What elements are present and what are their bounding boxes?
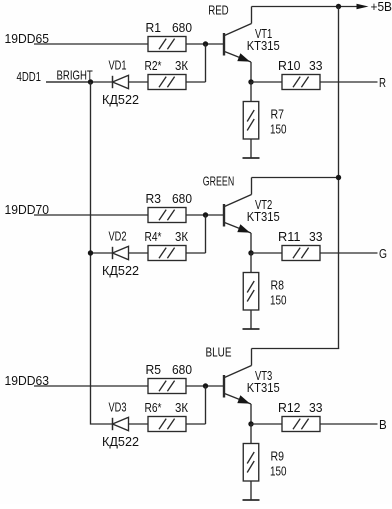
svg-text:VD3: VD3 [109,400,127,415]
resistor R6* 3К [145,400,189,432]
svg-text:КД522: КД522 [102,263,139,278]
svg-text:R4*: R4* [145,229,162,244]
svg-text:150: 150 [270,464,287,479]
wire R10 to output R [321,81,378,83]
svg-text:R6*: R6* [145,400,162,415]
wire 4DD1 BRIGHT input [46,81,91,83]
resistor R1 680 [146,20,193,52]
svg-text:GREEN: GREEN [203,173,234,188]
wire R11 to output G [321,252,378,254]
resistor R7 150 [243,102,286,140]
svg-text:КД522: КД522 [102,92,139,107]
wire emitter node to R8 [250,253,252,273]
resistor R11 33 [278,229,323,261]
wire emitter node to R9 [250,424,252,444]
node junction BRIGHT VD1 [88,79,93,84]
svg-text:R3: R3 [146,191,162,206]
node output B label [379,417,387,432]
node junction +5V rail GREEN [336,175,341,180]
wire R5 to base of VT3 [186,385,224,387]
wire vertical R4* to base junction [205,215,207,253]
svg-text:R8: R8 [271,278,285,293]
node 19DD63 input label [5,373,50,388]
resistor R10 33 [278,58,323,90]
svg-text:R2*: R2* [145,58,162,73]
node +5В supply arrow [357,0,392,14]
svg-text:150: 150 [270,293,287,308]
wire R4* to vertical [186,252,206,254]
svg-text:R: R [379,75,386,90]
wire collector VT3 to +5V rail [251,349,253,366]
svg-text:R1: R1 [146,20,162,35]
wire to diode VD2 [91,252,113,254]
svg-text:KT315: KT315 [247,38,280,53]
wire R7 to ground [250,139,252,158]
transistor VT1 KT315 [224,24,280,66]
resistor R2* 3К [145,58,189,90]
diode VD3 КД522 [102,400,139,449]
svg-text:680: 680 [172,362,192,377]
ground GND2 [243,328,260,330]
svg-text:4DD1: 4DD1 [17,69,42,84]
svg-text:R11: R11 [278,229,301,244]
wire collector VT2 to +5V rail [251,178,253,195]
svg-text:RED: RED [208,2,229,17]
wire R1 to base of VT1 [186,43,224,45]
svg-text:+5В: +5В [371,0,392,14]
svg-text:VD2: VD2 [109,229,127,244]
node emitter junction VT1 [248,79,253,84]
wire emitter VT2 down [250,233,252,253]
svg-text:R12: R12 [278,400,301,415]
wire emitter node to R12 [251,423,282,425]
svg-text:680: 680 [172,191,192,206]
svg-text:BRIGHT: BRIGHT [57,67,93,82]
ground GND3 [243,499,260,501]
svg-text:150: 150 [270,122,287,137]
svg-text:VD1: VD1 [109,58,127,73]
node base junction VT3 [203,383,208,388]
wire BRIGHT bus vertical [91,82,113,424]
wire vertical R6* to base junction [205,386,207,424]
wire diode VD1 to R2* [129,81,149,83]
resistor R9 150 [243,444,286,482]
node 19DD70 input label [5,202,50,217]
wire GREEN collector to +5V rail [252,177,339,179]
svg-text:BLUE: BLUE [206,344,232,359]
svg-text:G: G [379,246,387,261]
ground GND1 [243,157,260,159]
diode VD2 КД522 [102,229,139,278]
svg-text:R5: R5 [146,362,162,377]
wire R9 to ground [250,481,252,500]
wire input 19DD70 to R [34,214,149,216]
node GREEN label [203,173,234,188]
wire emitter node to R11 [251,252,282,254]
resistor R4* 3К [145,229,189,261]
wire R3 to base of VT2 [186,214,224,216]
wire R2* to vertical [186,81,206,83]
node BLUE label [206,344,232,359]
wire to diode VD1 [46,81,113,83]
svg-text:КД522: КД522 [102,434,139,449]
transistor VT3 KT315 [224,366,280,408]
node emitter junction VT3 [248,421,253,426]
wire R6* to vertical [186,423,206,425]
svg-text:R7: R7 [271,107,285,122]
svg-text:33: 33 [309,400,323,415]
node junction +5V rail top [336,4,341,9]
wire R8 to ground [250,310,252,329]
wire emitter VT1 down [250,62,252,82]
transistor VT2 KT315 [224,195,280,237]
wire input 19DD65 to R [34,43,149,45]
svg-text:R9: R9 [271,449,285,464]
node BRIGHT label [57,67,93,82]
svg-text:3К: 3К [175,58,188,73]
svg-text:680: 680 [172,20,192,35]
wire input 19DD63 to R [34,385,149,387]
svg-text:R10: R10 [278,58,301,73]
node junction BRIGHT VD2 [88,250,93,255]
node 4DD1 input label [17,69,42,84]
wire RED collector rail to +5V arrow [252,6,359,8]
resistor R12 33 [278,400,323,432]
svg-text:KT315: KT315 [247,380,280,395]
wire collector VT1 to +5V rail [251,7,253,24]
node emitter junction VT2 [248,250,253,255]
svg-text:33: 33 [309,229,323,244]
resistor R8 150 [243,273,286,311]
node base junction VT1 [203,41,208,46]
wire +5V vertical rail [338,7,340,349]
wire emitter VT3 down [250,404,252,424]
wire emitter node to R7 [250,82,252,102]
svg-text:3К: 3К [175,400,188,415]
svg-text:33: 33 [309,58,323,73]
node RED label [208,2,229,17]
wire vertical R2* to base junction [205,44,207,82]
wire diode VD3 to R6* [129,423,149,425]
diode VD1 КД522 [102,58,139,107]
svg-text:3К: 3К [175,229,188,244]
node 19DD65 input label [5,31,50,46]
node output R label [379,75,386,90]
wire diode VD2 to R4* [129,252,149,254]
node base junction VT2 [203,212,208,217]
svg-text:B: B [379,417,387,432]
node output G label [379,246,387,261]
resistor R5 680 [146,362,193,394]
wire R12 to output B [321,423,378,425]
wire BLUE collector to +5V rail end [252,348,340,350]
resistor R3 680 [146,191,193,223]
svg-text:KT315: KT315 [247,209,280,224]
wire emitter node to R10 [251,81,282,83]
